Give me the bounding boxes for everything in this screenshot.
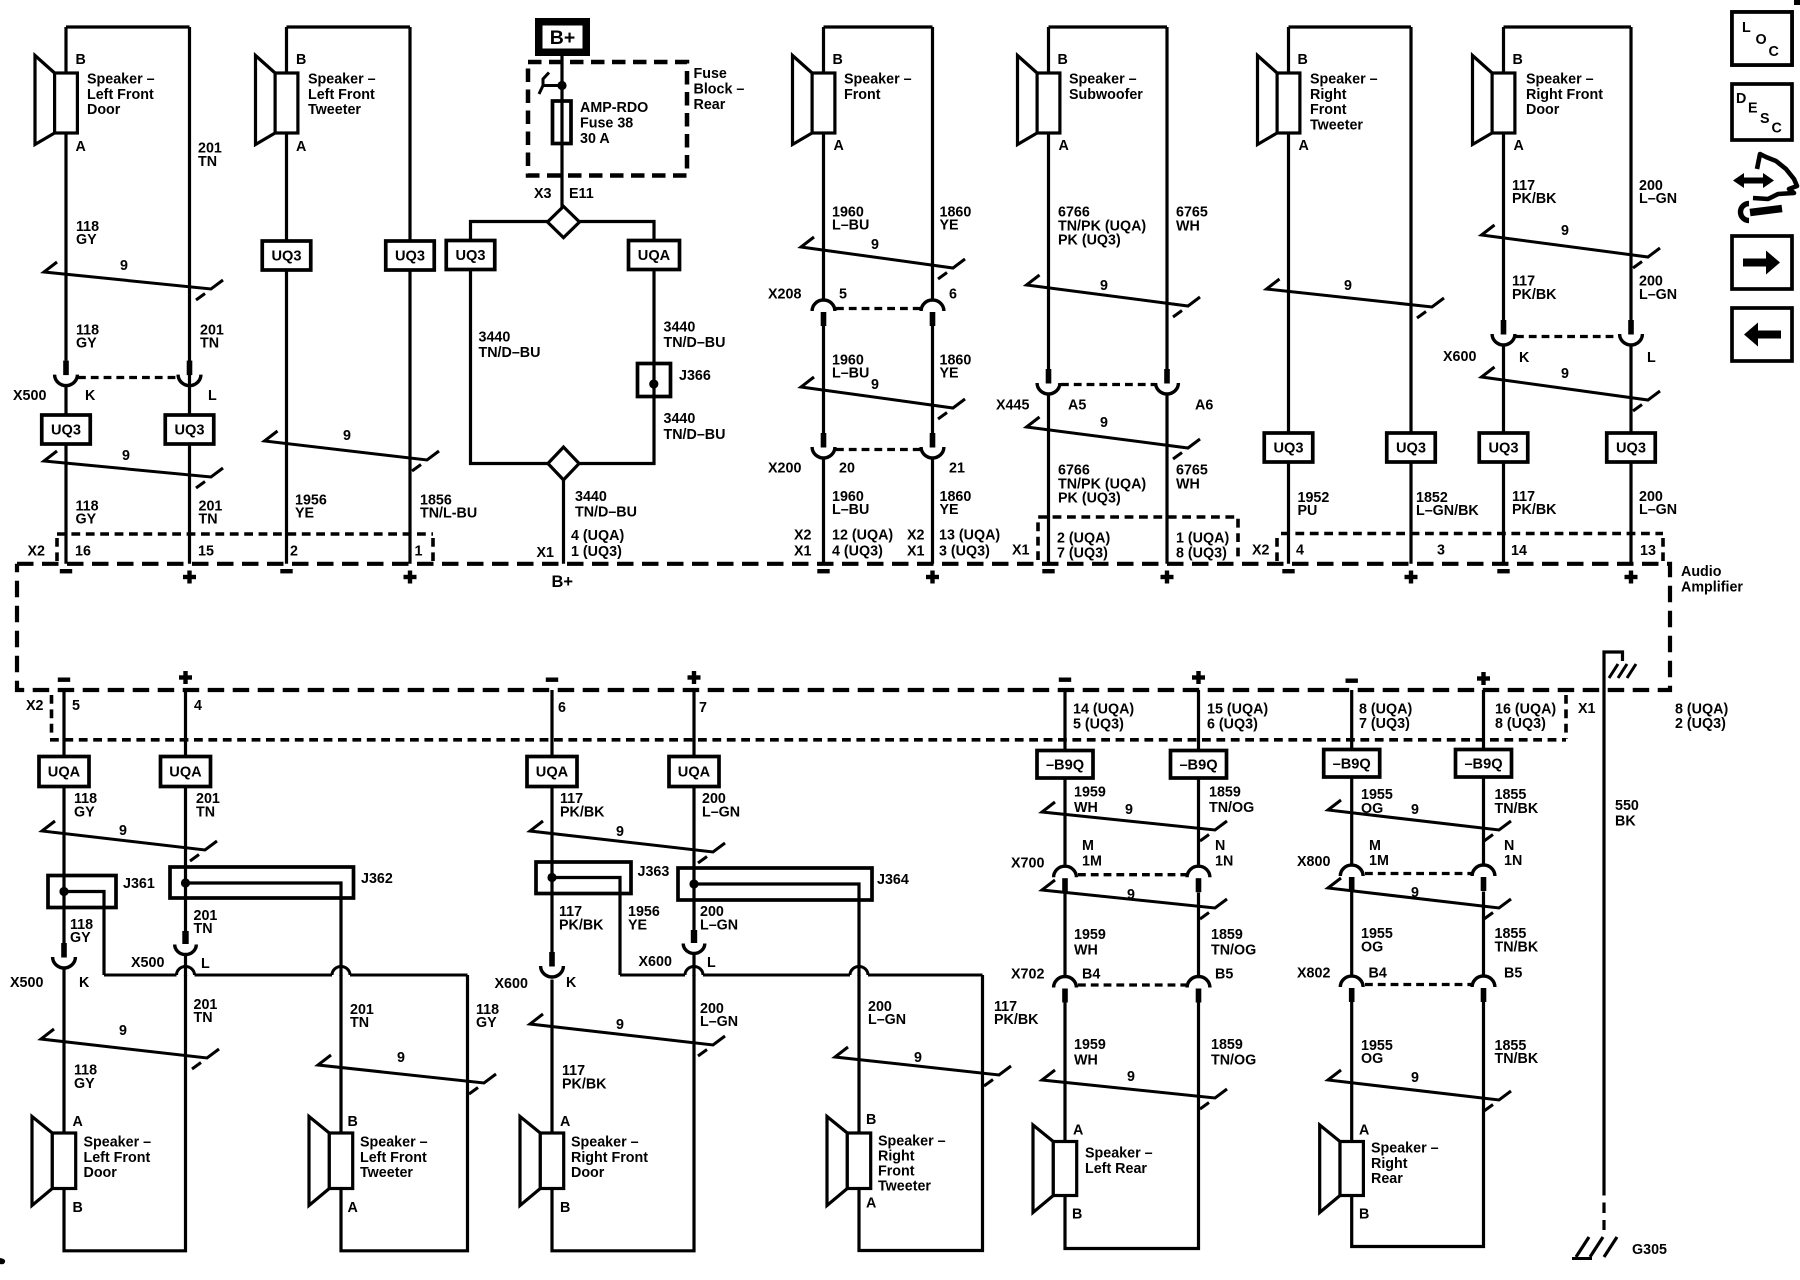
option box UQ3 on wire 1852 L-GN/BK (1387, 433, 1436, 462)
svg-text:TN/BK: TN/BK (1495, 801, 1539, 817)
amp polarity plus col6 (1405, 575, 1418, 579)
twisted pair g2 upper (530, 821, 725, 863)
svg-text:GY: GY (74, 1076, 95, 1092)
wire 1959 WH mid segment (1063, 893, 1066, 976)
svg-text:9: 9 (1125, 802, 1133, 818)
wire 118 GY (X500-K to amp pin 16) (64, 386, 67, 564)
icon tools outline curve (1753, 154, 1797, 199)
svg-text:L: L (1647, 350, 1656, 366)
svg-text:OG: OG (1361, 940, 1383, 956)
amp bottom polarity plus g1 (179, 675, 192, 679)
svg-text:X802: X802 (1297, 966, 1330, 982)
connector face separator right end (1661, 538, 1665, 561)
amp internal ground wire (1604, 652, 1623, 690)
svg-text:TN/OG: TN/OG (1211, 943, 1256, 959)
svg-text:L–GN: L–GN (700, 918, 738, 934)
svg-text:K: K (79, 975, 90, 991)
svg-text:Door: Door (571, 1165, 605, 1181)
svg-text:B: B (833, 52, 843, 68)
svg-text:K: K (566, 975, 577, 991)
svg-text:Speaker –: Speaker – (1371, 1141, 1439, 1157)
svg-text:16: 16 (75, 544, 91, 560)
svg-text:2 (UQA): 2 (UQA) (1057, 531, 1110, 547)
wire 3440 TN/D-BU to amp pin X1-4 (562, 480, 565, 564)
svg-text:2 (UQ3): 2 (UQ3) (1675, 716, 1726, 732)
svg-text:Left Front: Left Front (87, 87, 154, 103)
splice J362 branch wire to LF tweeter B (186, 883, 342, 976)
svg-text:14 (UQA): 14 (UQA) (1073, 702, 1134, 718)
svg-text:1M: 1M (1082, 854, 1102, 870)
LR speaker loop wire (1065, 1003, 1199, 1249)
twisted pair col5 lower (1027, 417, 1201, 459)
svg-text:L–GN: L–GN (868, 1012, 906, 1028)
svg-text:UQ3: UQ3 (455, 248, 485, 264)
svg-text:12 (UQA): 12 (UQA) (832, 528, 893, 544)
svg-text:Front: Front (878, 1164, 915, 1180)
svg-text:15: 15 (198, 544, 214, 560)
svg-text:9: 9 (616, 1017, 624, 1033)
svg-text:550: 550 (1615, 798, 1639, 814)
LF door speaker loop wire (64, 975, 186, 1251)
svg-text:9: 9 (397, 1050, 405, 1066)
svg-text:GY: GY (70, 930, 91, 946)
connector X702 pin B5 (1187, 976, 1210, 987)
svg-text:9: 9 (119, 823, 127, 839)
svg-text:5 (UQ3): 5 (UQ3) (1073, 717, 1124, 733)
wire 1855 TN/BK mid segment (1482, 892, 1485, 975)
svg-text:C: C (1772, 121, 1782, 137)
wire 6765 WH to amp pin 1 (1165, 395, 1168, 564)
svg-text:5: 5 (839, 287, 847, 303)
bottom connector separator right (1564, 695, 1568, 739)
twisted pair g3 upper (1042, 802, 1227, 841)
svg-text:TN: TN (196, 805, 215, 821)
svg-text:9: 9 (1561, 223, 1569, 239)
svg-text:B: B (1359, 1207, 1369, 1223)
RF tweeter loop wire (859, 975, 983, 1251)
wire 117 PK/BK to amp pin 14 (1502, 346, 1505, 564)
svg-text:A: A (1059, 138, 1069, 154)
svg-text:B4: B4 (1369, 966, 1387, 982)
splice J364 branch wire to RF tweeter B (694, 884, 859, 976)
svg-text:UQ3: UQ3 (271, 249, 301, 265)
svg-text:A: A (834, 138, 844, 154)
svg-text:4 (UQ3): 4 (UQ3) (832, 544, 883, 560)
audio amplifier top connector face dashed line X2 left (57, 532, 433, 536)
svg-text:9: 9 (1127, 1069, 1135, 1085)
svg-text:UQA: UQA (48, 765, 81, 781)
amp bottom polarity plus g2 (688, 675, 701, 679)
connector X600 pin K (top half) (1501, 320, 1507, 335)
svg-text:OG: OG (1361, 1051, 1383, 1067)
svg-text:TN: TN (200, 336, 219, 352)
wire 1955 OG from amp pin 8 (1350, 690, 1353, 864)
speaker LF door circuit: top loop wire (66, 25, 190, 28)
svg-text:B: B (1072, 1207, 1082, 1223)
svg-text:C: C (1769, 44, 1779, 60)
svg-text:9: 9 (1100, 278, 1108, 294)
subwoofer pin group dashed box (1038, 517, 1238, 560)
amp bottom polarity plus g4 (1477, 676, 1490, 680)
svg-text:B+: B+ (552, 573, 574, 591)
svg-text:9: 9 (1100, 415, 1108, 431)
LF tweeter loop wire (341, 975, 468, 1251)
svg-text:9: 9 (343, 428, 351, 444)
svg-text:3: 3 (1437, 543, 1445, 559)
svg-text:4: 4 (1296, 543, 1304, 559)
svg-text:L: L (201, 956, 210, 972)
icon tools wrench (1750, 209, 1782, 213)
option box UQ3 on wire 117 PK/BK (1479, 433, 1528, 462)
svg-text:L: L (208, 388, 217, 404)
svg-text:B5: B5 (1215, 967, 1233, 983)
svg-text:N: N (1215, 838, 1225, 854)
svg-text:A5: A5 (1068, 398, 1086, 414)
svg-text:L–BU: L–BU (832, 218, 869, 234)
svg-text:9: 9 (122, 448, 130, 464)
svg-text:GY: GY (476, 1015, 497, 1031)
svg-text:L–GN: L–GN (1639, 287, 1677, 303)
svg-text:A: A (73, 1114, 83, 1130)
twisted pair g1 upper (42, 821, 217, 861)
fuse block rear dashed outline (528, 62, 687, 176)
wire 1956 YE (LF tweeter A to amp pin 2) (285, 27, 288, 564)
svg-text:TN: TN (194, 1010, 213, 1026)
svg-text:L–GN: L–GN (702, 805, 740, 821)
connector X702 pin B4 (1054, 976, 1077, 987)
svg-text:8 (UQ3): 8 (UQ3) (1176, 546, 1227, 562)
option box UQ3 on wire 201 TN (165, 415, 214, 444)
branch wire 118 GY horizontal to tweeter (104, 974, 177, 977)
svg-text:X1: X1 (907, 544, 925, 560)
speaker U8: Left Front Tweeter (bottom) symbol (309, 1117, 329, 1206)
svg-text:Left Rear: Left Rear (1085, 1161, 1147, 1177)
splice J361 box (48, 876, 116, 908)
connector X208 pin 5 (812, 300, 835, 311)
svg-text:TN/D–BU: TN/D–BU (575, 505, 637, 521)
splice J362 junction dot (181, 878, 190, 887)
svg-text:PK/BK: PK/BK (1512, 287, 1557, 303)
wire 6765 WH (subwoofer B) upper segment (1165, 27, 1168, 369)
svg-text:UQA: UQA (638, 248, 671, 264)
page corner mark (1794, 0, 1800, 5)
amp polarity plus col1 (183, 575, 196, 579)
speaker U5: Right Front Tweeter symbol (1258, 56, 1278, 145)
svg-text:TN: TN (350, 1015, 369, 1031)
svg-text:Tweeter: Tweeter (308, 102, 361, 118)
svg-text:X2: X2 (26, 698, 44, 714)
speaker RF tweeter top loop wire (1289, 25, 1412, 28)
svg-text:13 (UQA): 13 (UQA) (939, 528, 1000, 544)
svg-text:1959: 1959 (1074, 927, 1106, 943)
svg-text:Right: Right (1371, 1156, 1408, 1172)
svg-text:TN/D–BU: TN/D–BU (664, 427, 726, 443)
svg-text:TN: TN (199, 512, 218, 528)
twisted pair col4 lower (801, 377, 965, 419)
option box UQ3 on wire 118 GY (42, 415, 91, 444)
option box -B9Q on wire 1955 OG (1324, 750, 1380, 778)
svg-text:X500: X500 (10, 975, 43, 991)
svg-text:L–BU: L–BU (832, 366, 869, 382)
svg-text:Speaker –: Speaker – (571, 1135, 639, 1151)
bottom connector face dashed line (50, 738, 1566, 742)
connector X445 dashed body (1061, 383, 1155, 386)
svg-text:9: 9 (1561, 366, 1569, 382)
svg-text:B: B (76, 52, 86, 68)
connector X702 dashed body (1078, 983, 1186, 986)
svg-text:1 (UQ3): 1 (UQ3) (571, 544, 622, 560)
svg-text:X200: X200 (768, 461, 801, 477)
svg-text:UQ3: UQ3 (395, 249, 425, 265)
speaker U7: Left Front Door (bottom) symbol (32, 1117, 52, 1206)
twisted pair g2 lower (530, 1014, 725, 1056)
amp polarity plus col7 (1625, 575, 1638, 579)
connector X600 dashed body (1516, 335, 1619, 338)
connector X600 pin L (bottom) stub and cup (691, 930, 697, 943)
svg-text:–B9Q: –B9Q (1046, 757, 1084, 773)
svg-text:GY: GY (76, 336, 97, 352)
svg-text:L–GN: L–GN (1639, 502, 1677, 518)
svg-text:Door: Door (87, 102, 121, 118)
twisted pair RF tweeter bottom (835, 1047, 1011, 1086)
speaker subwoofer top loop wire (1049, 25, 1168, 28)
svg-text:UQ3: UQ3 (1396, 441, 1426, 457)
amp bottom polarity minus g4 (1346, 679, 1358, 683)
svg-text:Speaker –: Speaker – (308, 72, 376, 88)
connector X500 dashed body (78, 376, 178, 379)
amp bottom polarity minus g2 (546, 678, 558, 682)
wire 118 GY to LF door speaker A (62, 968, 65, 1134)
speaker U11: Left Rear symbol (1033, 1125, 1053, 1213)
svg-text:A: A (1359, 1123, 1369, 1139)
svg-text:A6: A6 (1195, 398, 1213, 414)
svg-text:PK/BK: PK/BK (1512, 502, 1557, 518)
wire 550 BK dashed segment (1602, 1185, 1605, 1230)
amp polarity plus col4 (926, 575, 939, 579)
bus bar tap symbol inside fuse block (543, 73, 562, 86)
twisted pair col6 (1267, 279, 1445, 318)
hop over wire 201 TN at X500 L (177, 967, 195, 976)
svg-text:7 (UQ3): 7 (UQ3) (1359, 716, 1410, 732)
speaker U6: Right Front Door symbol (1473, 56, 1493, 145)
svg-text:1N: 1N (1215, 854, 1233, 870)
connector X208 pin 6 (921, 300, 944, 311)
wire 1955 OG to RR speaker A (1350, 1002, 1353, 1142)
splice J361 junction dot (59, 887, 68, 896)
svg-text:Speaker –: Speaker – (1069, 72, 1137, 88)
connector X802 pin B4 (1340, 976, 1363, 987)
svg-text:B4: B4 (1082, 967, 1100, 983)
svg-text:1M: 1M (1369, 853, 1389, 869)
connector X700 pin 1N (1187, 866, 1210, 877)
wire splice to UQ3 branch (471, 222, 548, 241)
svg-text:UQA: UQA (169, 765, 202, 781)
connector X500 pin L (bottom) stub and cup (182, 931, 188, 944)
svg-text:AMP-RDO: AMP-RDO (580, 100, 648, 116)
svg-text:J366: J366 (679, 368, 711, 384)
amp polarity minus col7 (1497, 569, 1509, 573)
svg-text:TN/D–BU: TN/D–BU (479, 345, 541, 361)
svg-text:X700: X700 (1011, 856, 1044, 872)
svg-text:L: L (1742, 20, 1751, 36)
amplifier body dashed outline (17, 564, 1670, 690)
svg-text:X600: X600 (1443, 349, 1476, 365)
svg-text:Fuse 38: Fuse 38 (580, 116, 633, 132)
svg-text:X3: X3 (534, 186, 552, 202)
svg-text:X2: X2 (907, 528, 925, 544)
svg-text:WH: WH (1074, 800, 1098, 816)
svg-text:A: A (560, 1114, 570, 1130)
ground G305 chassis symbol (1576, 1237, 1617, 1257)
wire 1955 OG mid segment (1350, 892, 1353, 975)
twisted pair symbol col1 upper (44, 262, 223, 300)
svg-text:Speaker –: Speaker – (84, 1135, 152, 1151)
svg-text:Amplifier: Amplifier (1681, 580, 1743, 596)
svg-text:X2: X2 (794, 528, 812, 544)
svg-text:X1: X1 (537, 545, 555, 561)
splice diamond lower (548, 447, 579, 480)
svg-text:TN/BK: TN/BK (1495, 1051, 1539, 1067)
svg-text:J361: J361 (123, 876, 155, 892)
svg-text:X800: X800 (1297, 854, 1330, 870)
amp bottom polarity plus g3 (1192, 675, 1205, 679)
power feed B+ terminal box (535, 18, 590, 56)
connector X200 pin 21 (930, 433, 936, 448)
connector X700 pin 1M (1054, 866, 1077, 877)
svg-text:7: 7 (699, 700, 707, 716)
icon box arrow left (1732, 308, 1792, 361)
amp bottom polarity minus g3 (1059, 678, 1071, 682)
svg-text:B: B (1058, 52, 1068, 68)
svg-text:A: A (1514, 138, 1524, 154)
svg-text:Tweeter: Tweeter (1310, 117, 1363, 133)
wire 117 PK/BK from amp pin 6 (550, 690, 553, 952)
svg-text:M: M (1369, 838, 1381, 854)
svg-text:WH: WH (1074, 943, 1098, 959)
speaker front top loop wire (824, 25, 933, 28)
twisted pair col5 upper (1027, 275, 1201, 317)
amp bottom polarity minus g1 (58, 678, 70, 682)
svg-text:BK: BK (1615, 814, 1636, 830)
page edge mark bottom left (0, 1258, 5, 1264)
svg-text:J364: J364 (877, 872, 909, 888)
splice J363 branch wire 1956 YE (552, 878, 620, 976)
amp polarity minus col2 (280, 569, 292, 573)
speaker U1: Left Front Door symbol (35, 56, 55, 145)
svg-text:B: B (866, 1112, 876, 1128)
splice J363 box (536, 862, 631, 894)
svg-text:PK/BK: PK/BK (994, 1012, 1039, 1028)
twisted pair col4 upper (801, 237, 965, 279)
wire 117 PK/BK to RF door speaker A (550, 980, 553, 1134)
svg-text:PU: PU (1298, 503, 1318, 519)
svg-text:2: 2 (290, 544, 298, 560)
wire 6766 (subwoofer A) upper segment (1047, 27, 1050, 369)
svg-text:3 (UQ3): 3 (UQ3) (939, 544, 990, 560)
svg-text:GY: GY (76, 512, 97, 528)
wire 201 TN to LF tweeter B (339, 975, 342, 1133)
svg-text:X600: X600 (639, 954, 672, 970)
svg-text:7 (UQ3): 7 (UQ3) (1057, 546, 1108, 562)
icon tools double arrow (1733, 173, 1774, 188)
svg-text:3440: 3440 (664, 320, 696, 336)
svg-text:X2: X2 (28, 544, 46, 560)
svg-text:Left Front: Left Front (308, 87, 375, 103)
svg-text:A: A (1299, 138, 1309, 154)
speaker U10: Right Front Tweeter (bottom) symbol (827, 1117, 847, 1206)
svg-text:X500: X500 (131, 955, 164, 971)
svg-text:Tweeter: Tweeter (360, 1165, 413, 1181)
svg-text:TN: TN (198, 154, 217, 170)
twisted pair g3 lower (1042, 1070, 1227, 1109)
svg-text:Block –: Block – (694, 82, 745, 98)
svg-text:1N: 1N (1504, 853, 1522, 869)
connector face separator left (55, 538, 59, 561)
wire 1959 WH from amp pin 14 (1063, 690, 1066, 865)
connector X500 pin K (bottom) (61, 943, 67, 958)
svg-text:J362: J362 (361, 871, 393, 887)
speaker U12: Right Rear symbol (1320, 1125, 1340, 1213)
connector X445 pin A5 (1046, 369, 1052, 384)
wire 1860 YE mid segment (931, 326, 934, 433)
svg-text:TN/OG: TN/OG (1211, 1053, 1256, 1069)
svg-text:TN/BK: TN/BK (1495, 940, 1539, 956)
svg-text:4: 4 (194, 698, 202, 714)
svg-text:D: D (1736, 91, 1746, 107)
svg-text:TN/L-BU: TN/L-BU (420, 506, 477, 522)
splice diamond upper (548, 206, 580, 237)
option box UQA on wire 117 PK/BK (527, 757, 577, 787)
twisted pair g4 lower (1328, 1070, 1511, 1111)
option box -B9Q on wire 1859 TN/OG (1171, 751, 1227, 779)
svg-text:B: B (348, 1114, 358, 1130)
svg-text:X702: X702 (1011, 967, 1044, 983)
svg-text:Fuse: Fuse (694, 66, 727, 82)
wire 6766 to amp pin 2 (1047, 395, 1050, 564)
splice J364 junction dot (689, 879, 698, 888)
hop over wire 200 L-GN at X600 L (685, 967, 703, 976)
svg-text:21: 21 (949, 461, 965, 477)
svg-text:Speaker –: Speaker – (360, 1135, 428, 1151)
connector X800 dashed body (1365, 872, 1471, 875)
wire 1855 TN/BK from amp pin 16 (1482, 690, 1485, 864)
wire 1860 YE (speaker front B) upper segment (931, 27, 934, 299)
svg-text:–B9Q: –B9Q (1179, 757, 1217, 773)
svg-text:Subwoofer: Subwoofer (1069, 87, 1143, 103)
wire 3440 TN/D-BU left branch (471, 270, 549, 464)
svg-text:GY: GY (74, 805, 95, 821)
svg-text:14: 14 (1511, 543, 1527, 559)
RR speaker loop wire (1352, 1002, 1484, 1247)
svg-text:Left Front: Left Front (84, 1150, 151, 1166)
svg-text:4 (UQA): 4 (UQA) (571, 528, 624, 544)
svg-text:B: B (560, 1200, 570, 1216)
wire 1852 L-GN/BK (RF tweeter B to amp pin 3) (1409, 27, 1412, 564)
connector X200 pin 20 (821, 433, 827, 448)
svg-text:Speaker –: Speaker – (1310, 72, 1378, 88)
speaker U9: Right Front Door (bottom) symbol (520, 1117, 540, 1206)
connector X802 pin B5 (1472, 976, 1495, 987)
svg-text:O: O (1756, 32, 1767, 48)
svg-text:K: K (1519, 350, 1530, 366)
RF door speaker loop wire (552, 975, 694, 1251)
svg-text:UQ3: UQ3 (174, 423, 204, 439)
wire 200 L-GN to amp pin 13 (1629, 346, 1632, 564)
svg-text:N: N (1504, 838, 1514, 854)
connector X200 dashed body (836, 448, 920, 451)
svg-text:S: S (1760, 111, 1770, 127)
svg-text:Speaker –: Speaker – (878, 1134, 946, 1150)
